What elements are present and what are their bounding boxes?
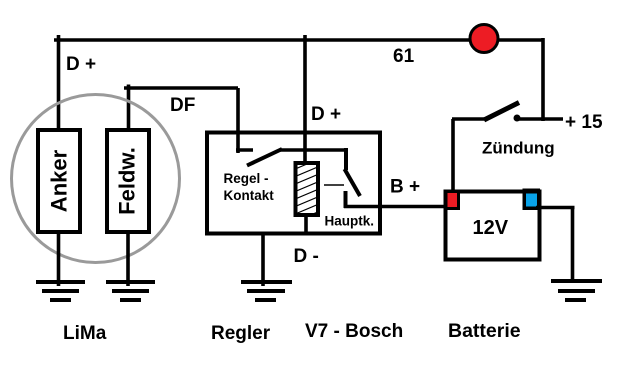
Regler box xyxy=(207,133,380,234)
svg-text:12V: 12V xyxy=(473,217,509,239)
wire Anker to ground xyxy=(57,232,61,286)
wire D- to ground xyxy=(261,234,265,286)
svg-text:V7 - Bosch: V7 - Bosch xyxy=(305,321,403,342)
svg-text:LiMa: LiMa xyxy=(63,323,107,344)
svg-text:Zündung: Zündung xyxy=(482,139,555,158)
svg-text:Regel -: Regel - xyxy=(224,171,269,186)
battery 12V box xyxy=(446,192,540,260)
svg-text:Batterie: Batterie xyxy=(448,320,521,342)
wire top bus D+/61 xyxy=(54,38,543,42)
battery terminal - (blue) xyxy=(523,189,541,211)
ground (Regler D-) xyxy=(241,282,292,300)
svg-text:B +: B + xyxy=(390,177,420,198)
svg-text:D -: D - xyxy=(294,246,319,267)
coil (regulator winding) xyxy=(288,156,326,225)
svg-text:D +: D + xyxy=(311,104,341,125)
LiMa stator circle xyxy=(12,95,180,263)
wire ignition to battery + xyxy=(451,119,455,193)
wire Feldw to ground xyxy=(126,232,130,286)
winding Feldw xyxy=(107,130,149,232)
svg-text:61: 61 xyxy=(393,46,415,67)
svg-text:D +: D + xyxy=(66,54,96,75)
switch Hauptk xyxy=(345,148,361,208)
wire ignition right segment to +15 xyxy=(516,117,563,121)
wire lamp to ignition switch xyxy=(541,38,545,121)
link coil to Hauptk xyxy=(324,184,344,186)
ground (Feldw) xyxy=(106,282,155,300)
wire switch to D+ and Hauptk contact xyxy=(280,148,346,152)
svg-text:Kontakt: Kontakt xyxy=(224,188,275,203)
lamp 61 charge indicator xyxy=(470,25,498,53)
ground (Anker) xyxy=(36,282,85,300)
wire battery - to ground xyxy=(536,208,575,283)
ground (battery) xyxy=(551,281,602,300)
switch Regel-Kontakt arm xyxy=(247,149,282,166)
battery terminal + (red) xyxy=(445,190,461,211)
winding Anker xyxy=(38,130,80,232)
wire DF drop into Regler xyxy=(236,88,253,153)
wire vertical DF to Feldw xyxy=(127,85,131,131)
svg-text:Feldw.: Feldw. xyxy=(115,147,140,215)
wire DF horizontal xyxy=(124,86,238,90)
wire B+ output xyxy=(344,205,448,209)
svg-text:Regler: Regler xyxy=(211,323,271,344)
svg-text:Anker: Anker xyxy=(47,149,72,212)
svg-text:DF: DF xyxy=(170,95,195,116)
svg-text:+ 15: + 15 xyxy=(565,112,603,133)
svg-text:Hauptk.: Hauptk. xyxy=(325,214,375,229)
node Regel-Kontakt label xyxy=(224,171,275,203)
wire vertical D+ to Regler coil xyxy=(303,35,307,165)
wire coil bottom to box xyxy=(304,214,308,234)
switch Zündung xyxy=(452,103,521,122)
wire vertical from top bus to Anker xyxy=(57,35,61,130)
